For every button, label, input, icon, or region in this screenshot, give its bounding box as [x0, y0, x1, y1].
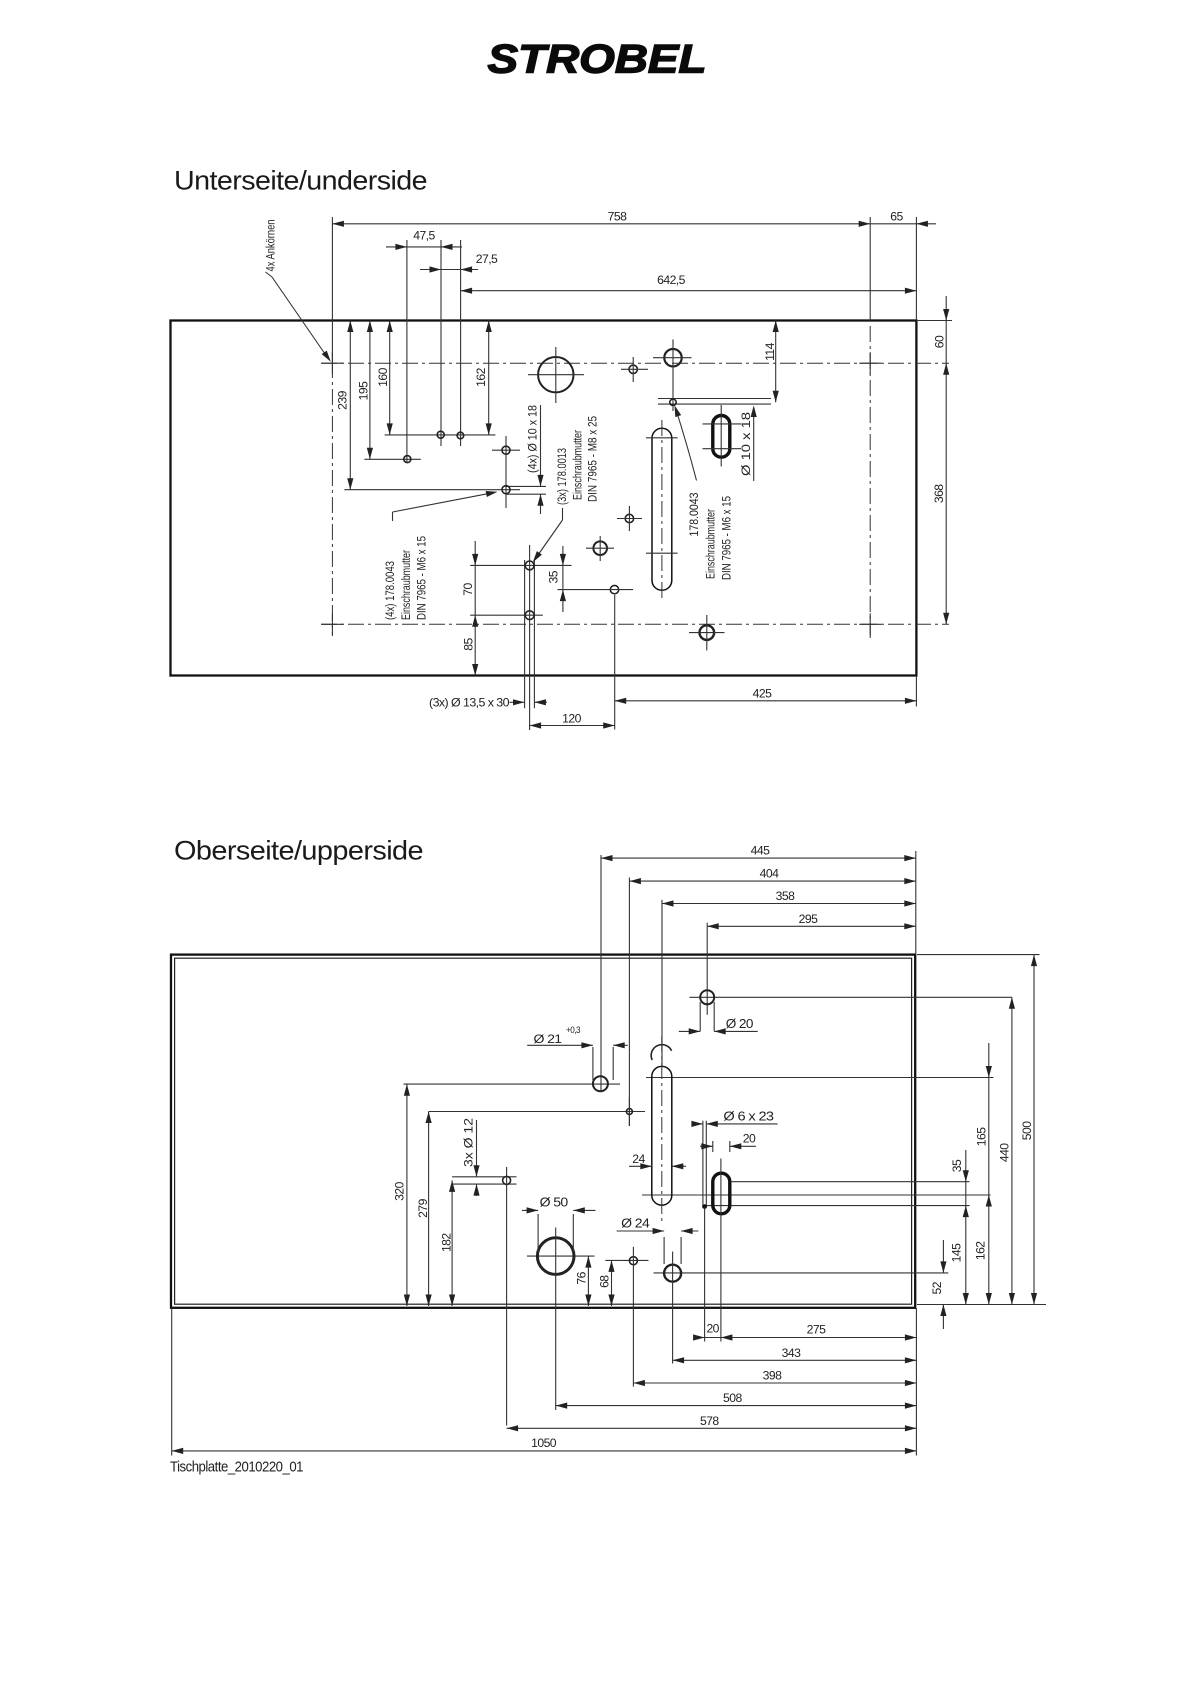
svg-text:Ø 6 x 23: Ø 6 x 23 [723, 1109, 774, 1123]
svg-text:68: 68 [597, 1275, 611, 1288]
svg-text:Einschraubmutter: Einschraubmutter [706, 509, 718, 579]
svg-text:4x Ankörnen: 4x Ankörnen [266, 220, 278, 272]
svg-text:162: 162 [474, 367, 488, 386]
svg-text:398: 398 [763, 1369, 782, 1383]
svg-text:279: 279 [416, 1198, 430, 1217]
svg-text:Ø 21: Ø 21 [534, 1032, 563, 1046]
svg-text:343: 343 [782, 1346, 801, 1360]
svg-text:65: 65 [890, 210, 903, 224]
svg-text:3x Ø 12: 3x Ø 12 [464, 1118, 476, 1167]
svg-text:445: 445 [751, 844, 770, 858]
svg-text:114: 114 [763, 342, 777, 361]
svg-text:Ø 20: Ø 20 [726, 1017, 754, 1031]
svg-text:24: 24 [632, 1152, 645, 1166]
svg-text:60: 60 [932, 335, 946, 348]
svg-text:120: 120 [562, 711, 581, 725]
svg-text:162: 162 [973, 1241, 987, 1260]
svg-text:Ø 50: Ø 50 [540, 1195, 569, 1209]
svg-text:Ø 10 x 18: Ø 10 x 18 [741, 412, 753, 476]
svg-text:(3x) 178.0013: (3x) 178.0013 [557, 448, 569, 505]
svg-text:320: 320 [392, 1181, 406, 1200]
svg-text:178.0043: 178.0043 [689, 493, 701, 537]
svg-text:(4x) Ø 10 x 18: (4x) Ø 10 x 18 [528, 405, 540, 473]
svg-text:758: 758 [608, 210, 627, 224]
svg-text:52: 52 [930, 1281, 944, 1294]
svg-text:160: 160 [376, 367, 390, 386]
svg-text:85: 85 [461, 638, 475, 651]
svg-text:295: 295 [799, 912, 818, 926]
svg-text:47,5: 47,5 [413, 229, 435, 243]
svg-text:DIN 7965 - M6 x 15: DIN 7965 - M6 x 15 [722, 496, 734, 580]
svg-text:20: 20 [706, 1322, 719, 1336]
svg-text:35: 35 [547, 570, 561, 583]
svg-text:500: 500 [1020, 1121, 1034, 1140]
svg-text:275: 275 [807, 1323, 826, 1337]
svg-text:STROBEL: STROBEL [488, 38, 707, 82]
svg-text:145: 145 [950, 1243, 964, 1262]
svg-text:27,5: 27,5 [476, 252, 498, 266]
svg-text:Unterseite/underside: Unterseite/underside [174, 166, 427, 196]
svg-text:1050: 1050 [531, 1436, 557, 1450]
svg-text:DIN 7965 - M8 x 25: DIN 7965 - M8 x 25 [587, 416, 599, 502]
svg-text:440: 440 [998, 1143, 1012, 1162]
svg-text:642,5: 642,5 [657, 273, 686, 287]
svg-text:+0,3: +0,3 [566, 1025, 580, 1035]
svg-text:70: 70 [461, 583, 475, 596]
svg-text:578: 578 [700, 1414, 719, 1428]
svg-text:425: 425 [753, 686, 772, 700]
svg-text:Ø 24: Ø 24 [621, 1216, 650, 1230]
svg-text:DIN 7965 - M6 x 15: DIN 7965 - M6 x 15 [416, 536, 428, 620]
svg-text:Einschraubmutter: Einschraubmutter [573, 430, 585, 500]
svg-text:(3x) Ø 13,5 x 30: (3x) Ø 13,5 x 30 [429, 696, 510, 710]
svg-text:(4x) 178.0043: (4x) 178.0043 [385, 561, 397, 620]
svg-text:404: 404 [760, 867, 779, 881]
svg-text:76: 76 [575, 1271, 589, 1284]
svg-text:368: 368 [932, 484, 946, 503]
svg-text:182: 182 [439, 1233, 453, 1252]
svg-text:Einschraubmutter: Einschraubmutter [401, 550, 413, 620]
svg-text:239: 239 [335, 390, 349, 409]
svg-text:508: 508 [723, 1391, 742, 1405]
svg-text:Tischplatte_2010220_01: Tischplatte_2010220_01 [170, 1459, 303, 1476]
svg-text:358: 358 [776, 889, 795, 903]
svg-text:35: 35 [950, 1159, 964, 1172]
svg-text:Oberseite/upperside: Oberseite/upperside [174, 836, 423, 866]
svg-text:195: 195 [356, 381, 370, 400]
svg-text:165: 165 [975, 1127, 989, 1146]
svg-text:20: 20 [743, 1131, 756, 1145]
